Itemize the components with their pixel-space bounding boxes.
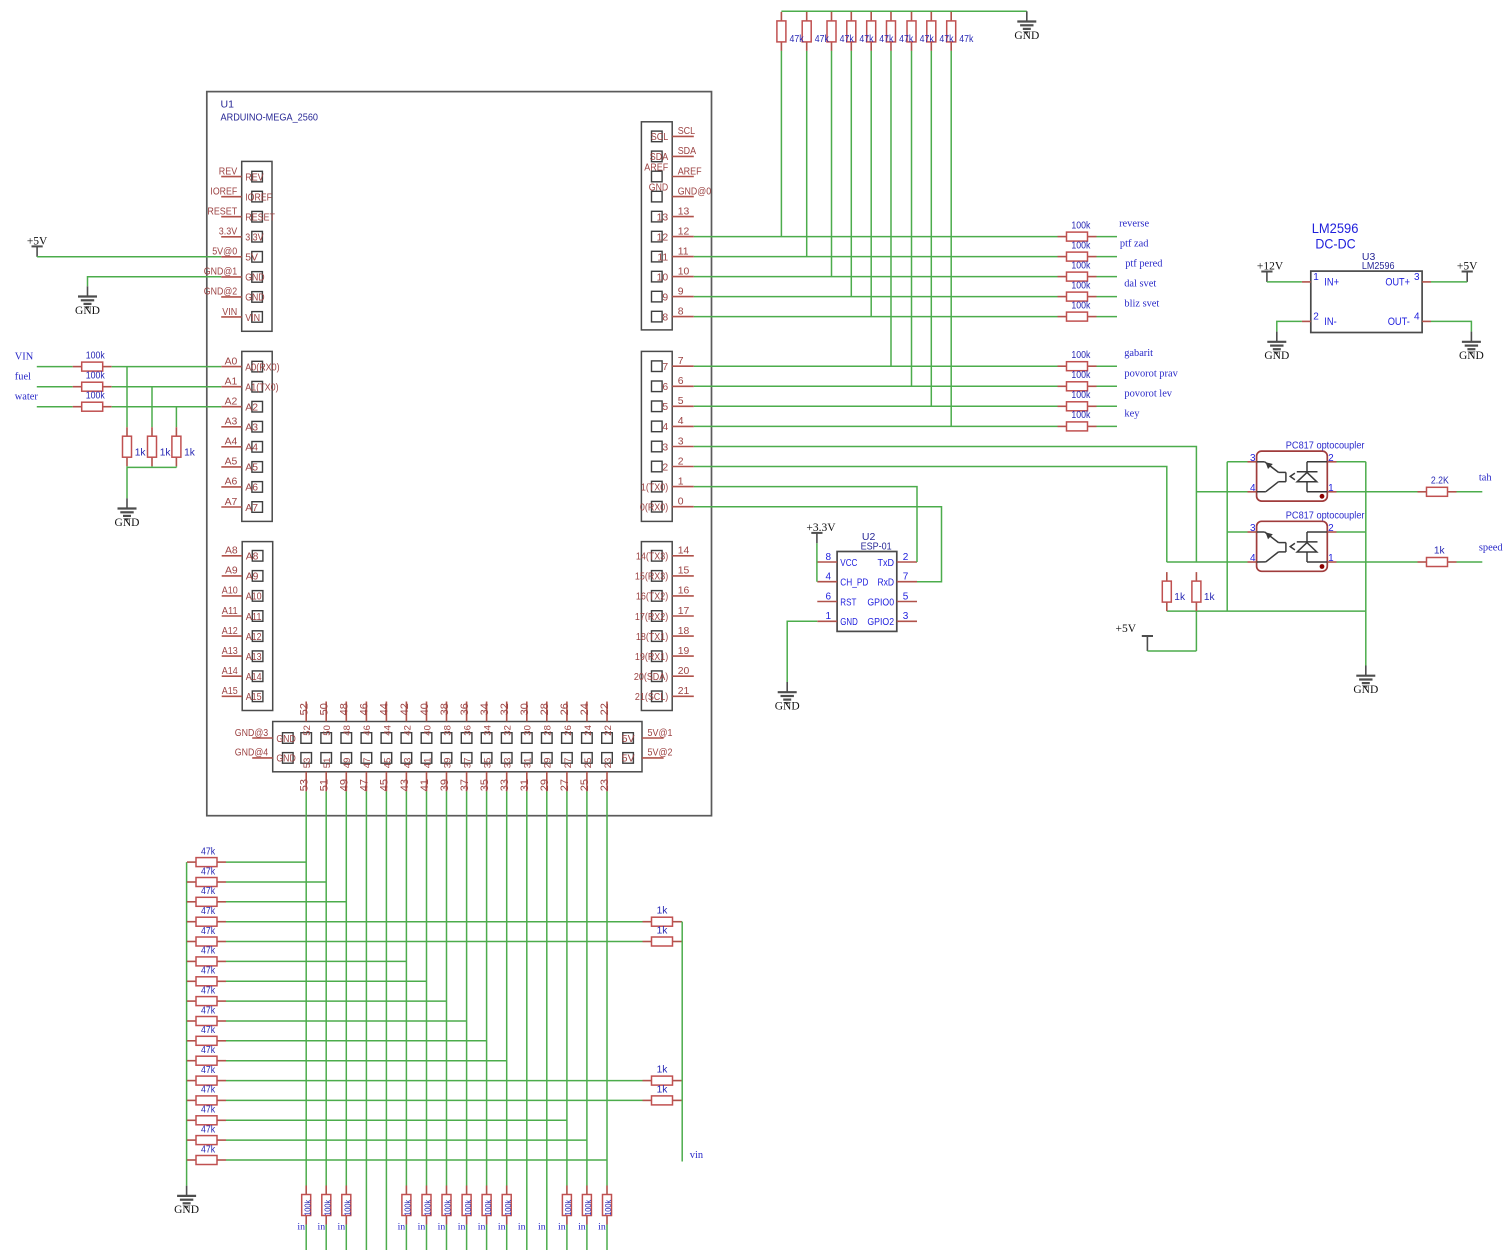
svg-text:GND: GND	[649, 183, 668, 194]
svg-text:100k: 100k	[1071, 220, 1091, 231]
svg-text:19: 19	[678, 646, 690, 657]
svg-text:42: 42	[399, 703, 411, 715]
svg-text:A11: A11	[246, 612, 262, 623]
svg-text:GND: GND	[1353, 684, 1378, 696]
svg-text:A13: A13	[222, 646, 238, 657]
svg-text:2: 2	[1328, 523, 1334, 534]
svg-text:SCL: SCL	[651, 132, 669, 143]
svg-text:1k: 1k	[160, 447, 172, 458]
svg-text:35: 35	[479, 779, 491, 791]
svg-text:29: 29	[543, 758, 554, 769]
svg-text:reverse: reverse	[1119, 219, 1149, 230]
svg-text:5V@2: 5V@2	[648, 748, 673, 759]
svg-text:8: 8	[826, 552, 832, 563]
svg-text:51: 51	[319, 779, 331, 791]
svg-text:A13: A13	[246, 652, 262, 663]
svg-text:52: 52	[302, 725, 313, 736]
svg-text:0: 0	[678, 497, 684, 508]
svg-text:3: 3	[1250, 453, 1256, 464]
svg-text:47k: 47k	[201, 985, 216, 996]
svg-text:key: key	[1124, 408, 1140, 419]
svg-text:20(SDA): 20(SDA)	[634, 672, 668, 683]
svg-text:15: 15	[678, 566, 690, 577]
svg-text:in: in	[297, 1222, 305, 1233]
svg-text:in: in	[578, 1222, 586, 1233]
svg-text:1(TX0): 1(TX0)	[641, 482, 668, 493]
svg-text:gabarit: gabarit	[1124, 348, 1153, 359]
svg-text:GND: GND	[245, 293, 264, 304]
svg-text:3: 3	[1414, 272, 1420, 283]
svg-text:A15: A15	[246, 692, 262, 703]
svg-text:46: 46	[359, 703, 371, 715]
svg-text:AREF: AREF	[644, 163, 668, 174]
svg-text:47k: 47k	[899, 34, 914, 45]
svg-text:A12: A12	[222, 626, 238, 637]
svg-text:A0: A0	[225, 356, 238, 367]
svg-text:34: 34	[483, 725, 494, 736]
svg-text:U1: U1	[221, 99, 235, 111]
svg-text:bliz svet: bliz svet	[1124, 299, 1159, 310]
svg-text:25: 25	[579, 779, 591, 791]
svg-text:16(TX2): 16(TX2)	[636, 592, 668, 603]
svg-text:51: 51	[322, 758, 333, 769]
svg-text:21(SCL): 21(SCL)	[635, 692, 668, 703]
svg-text:42: 42	[402, 725, 413, 736]
svg-text:in: in	[418, 1222, 426, 1233]
svg-text:+5V: +5V	[1115, 623, 1136, 635]
svg-text:A9: A9	[225, 566, 238, 577]
svg-text:34: 34	[479, 703, 491, 715]
svg-text:26: 26	[559, 703, 571, 715]
svg-text:53: 53	[299, 779, 311, 791]
svg-text:REV: REV	[245, 172, 263, 183]
svg-text:A0(RX0): A0(RX0)	[245, 362, 279, 373]
svg-text:1k: 1k	[1434, 546, 1446, 557]
svg-text:100k: 100k	[1071, 280, 1091, 291]
svg-text:DC-DC: DC-DC	[1315, 235, 1355, 251]
svg-text:45: 45	[382, 758, 393, 769]
svg-text:2: 2	[1328, 453, 1334, 464]
svg-text:VCC: VCC	[840, 558, 857, 569]
svg-text:GND@3: GND@3	[235, 728, 269, 739]
svg-text:1k: 1k	[135, 447, 147, 458]
svg-text:47k: 47k	[201, 866, 216, 877]
svg-text:A15: A15	[222, 686, 238, 697]
svg-text:GND: GND	[276, 754, 295, 765]
svg-text:47k: 47k	[840, 34, 855, 45]
svg-text:2.2K: 2.2K	[1431, 475, 1449, 486]
svg-text:21: 21	[678, 686, 690, 697]
svg-text:1: 1	[678, 476, 684, 487]
svg-text:48: 48	[342, 725, 353, 736]
svg-text:4: 4	[1250, 553, 1256, 564]
svg-text:OUT-: OUT-	[1388, 316, 1411, 328]
svg-text:A6: A6	[225, 477, 238, 488]
svg-text:47k: 47k	[815, 34, 830, 45]
svg-text:41: 41	[422, 758, 433, 769]
svg-text:47k: 47k	[201, 1144, 216, 1155]
svg-text:43: 43	[402, 758, 413, 769]
svg-text:A10: A10	[246, 592, 262, 603]
svg-text:12: 12	[678, 226, 690, 237]
svg-text:4: 4	[662, 422, 668, 433]
svg-text:32: 32	[499, 703, 511, 715]
svg-text:100k: 100k	[503, 1199, 513, 1216]
svg-text:47k: 47k	[859, 34, 874, 45]
svg-text:A4: A4	[225, 437, 238, 448]
svg-text:GND: GND	[115, 517, 140, 529]
svg-text:47k: 47k	[959, 34, 974, 45]
svg-text:100k: 100k	[1071, 390, 1091, 401]
svg-text:in: in	[598, 1222, 606, 1233]
svg-text:47k: 47k	[201, 1105, 216, 1116]
svg-text:dal svet: dal svet	[1124, 279, 1156, 290]
svg-text:11: 11	[678, 246, 689, 257]
svg-text:A9: A9	[246, 572, 259, 583]
svg-text:47: 47	[359, 779, 371, 791]
svg-text:15(RX3): 15(RX3)	[635, 572, 668, 583]
svg-text:3: 3	[1250, 523, 1256, 534]
svg-text:in: in	[438, 1222, 446, 1233]
svg-text:1: 1	[826, 611, 832, 622]
svg-text:GND: GND	[245, 273, 264, 284]
svg-text:47k: 47k	[201, 906, 216, 917]
svg-text:46: 46	[362, 725, 373, 736]
svg-text:50: 50	[322, 725, 333, 736]
svg-text:24: 24	[579, 703, 591, 715]
svg-text:47k: 47k	[920, 34, 935, 45]
svg-text:100k: 100k	[1071, 260, 1091, 271]
svg-text:GND: GND	[1459, 350, 1484, 362]
svg-text:GPIO0: GPIO0	[867, 597, 894, 608]
svg-text:47k: 47k	[201, 1085, 216, 1096]
svg-text:100k: 100k	[1071, 300, 1091, 311]
svg-text:in: in	[498, 1222, 506, 1233]
svg-text:A2: A2	[225, 397, 238, 408]
svg-text:47k: 47k	[201, 846, 216, 857]
svg-text:1: 1	[1313, 272, 1319, 283]
svg-text:5V: 5V	[622, 734, 635, 745]
svg-text:36: 36	[459, 703, 471, 715]
svg-text:14: 14	[678, 546, 690, 557]
svg-text:4: 4	[1250, 483, 1256, 494]
svg-text:AREF: AREF	[678, 166, 702, 177]
svg-text:22: 22	[603, 725, 614, 736]
svg-text:100k: 100k	[343, 1199, 353, 1216]
svg-text:GND: GND	[840, 617, 858, 628]
svg-text:25: 25	[583, 758, 594, 769]
svg-text:37: 37	[459, 779, 471, 791]
svg-text:6: 6	[826, 591, 832, 602]
svg-text:VIN: VIN	[245, 313, 260, 324]
svg-text:7: 7	[678, 356, 684, 367]
svg-text:LM2596: LM2596	[1312, 220, 1359, 236]
svg-text:TxD: TxD	[878, 558, 895, 569]
svg-text:IOREF: IOREF	[210, 187, 237, 198]
svg-text:9: 9	[678, 286, 684, 297]
svg-text:in: in	[398, 1222, 406, 1233]
svg-text:100k: 100k	[1071, 240, 1091, 251]
svg-text:41: 41	[419, 779, 431, 791]
svg-text:GND@4: GND@4	[235, 748, 269, 759]
svg-text:5V: 5V	[245, 253, 258, 264]
svg-text:37: 37	[463, 758, 474, 769]
svg-text:in: in	[458, 1222, 466, 1233]
svg-text:44: 44	[379, 703, 391, 715]
svg-text:33: 33	[499, 779, 511, 791]
svg-text:RESET: RESET	[245, 213, 275, 224]
svg-text:4: 4	[1414, 311, 1420, 322]
svg-text:4: 4	[678, 416, 684, 427]
svg-text:24: 24	[583, 725, 594, 736]
svg-text:43: 43	[399, 779, 411, 791]
svg-text:A8: A8	[246, 552, 259, 563]
svg-text:1k: 1k	[657, 926, 669, 937]
svg-text:100k: 100k	[86, 391, 106, 402]
svg-text:GND: GND	[775, 701, 800, 713]
svg-text:1: 1	[1328, 483, 1334, 494]
svg-text:A14: A14	[222, 666, 238, 677]
svg-text:11: 11	[657, 252, 668, 263]
svg-text:100k: 100k	[583, 1199, 593, 1216]
svg-text:8: 8	[678, 306, 684, 317]
svg-text:5: 5	[662, 402, 668, 413]
svg-text:+5V: +5V	[1457, 261, 1478, 273]
svg-text:REV: REV	[219, 166, 237, 177]
svg-text:7: 7	[662, 362, 668, 373]
svg-text:6: 6	[662, 382, 668, 393]
svg-text:RxD: RxD	[878, 578, 895, 589]
svg-text:47k: 47k	[879, 34, 894, 45]
svg-text:1k: 1k	[657, 906, 669, 917]
svg-text:IN+: IN+	[1324, 277, 1339, 289]
svg-text:49: 49	[339, 779, 351, 791]
svg-text:GND@2: GND@2	[204, 287, 238, 298]
svg-text:in: in	[538, 1222, 546, 1233]
svg-text:100k: 100k	[302, 1199, 312, 1216]
svg-text:1k: 1k	[1204, 592, 1216, 603]
svg-text:32: 32	[503, 725, 514, 736]
svg-text:A12: A12	[246, 632, 262, 643]
svg-text:47k: 47k	[201, 1045, 216, 1056]
svg-text:RESET: RESET	[207, 207, 237, 218]
svg-text:28: 28	[539, 703, 551, 715]
svg-text:A3: A3	[225, 417, 238, 428]
svg-text:17(RX2): 17(RX2)	[635, 612, 668, 623]
svg-text:1k: 1k	[657, 1084, 669, 1095]
svg-text:+5V: +5V	[27, 236, 48, 248]
svg-text:5: 5	[903, 591, 909, 602]
svg-text:in: in	[317, 1222, 325, 1233]
svg-text:PC817 optocoupler: PC817 optocoupler	[1286, 511, 1365, 522]
svg-text:9: 9	[662, 292, 668, 303]
svg-text:A10: A10	[222, 586, 238, 597]
svg-text:48: 48	[339, 703, 351, 715]
svg-text:13: 13	[657, 212, 669, 223]
svg-text:1k: 1k	[1174, 592, 1186, 603]
svg-text:A3: A3	[245, 423, 258, 434]
svg-text:A1(TX0): A1(TX0)	[245, 383, 278, 394]
svg-text:0(RX0): 0(RX0)	[640, 503, 668, 514]
svg-text:GND: GND	[276, 734, 295, 745]
svg-text:7: 7	[903, 572, 909, 583]
svg-text:47k: 47k	[201, 966, 216, 977]
svg-text:GND@0: GND@0	[678, 186, 712, 197]
svg-text:14(TX3): 14(TX3)	[636, 552, 668, 563]
svg-text:100k: 100k	[86, 350, 106, 361]
svg-text:28: 28	[543, 725, 554, 736]
svg-text:ptf zad: ptf zad	[1120, 239, 1149, 250]
svg-text:ARDUINO-MEGA_2560: ARDUINO-MEGA_2560	[221, 112, 319, 124]
svg-text:47k: 47k	[201, 1005, 216, 1016]
svg-text:1: 1	[1328, 553, 1334, 564]
svg-text:GND: GND	[1014, 30, 1039, 42]
svg-text:47k: 47k	[201, 886, 216, 897]
svg-text:49: 49	[342, 758, 353, 769]
svg-text:IOREF: IOREF	[245, 193, 272, 204]
svg-text:38: 38	[442, 725, 453, 736]
svg-text:ESP-01: ESP-01	[861, 540, 892, 552]
svg-text:100k: 100k	[86, 371, 106, 382]
svg-text:in: in	[478, 1222, 486, 1233]
svg-text:1k: 1k	[657, 1065, 669, 1076]
svg-text:A1: A1	[225, 377, 238, 388]
svg-text:30: 30	[519, 703, 531, 715]
svg-text:36: 36	[463, 725, 474, 736]
svg-text:27: 27	[559, 779, 571, 791]
svg-text:GND: GND	[75, 305, 100, 317]
svg-text:SCL: SCL	[678, 126, 696, 137]
svg-text:povorot prav: povorot prav	[1124, 368, 1178, 379]
svg-text:VIN: VIN	[222, 307, 237, 318]
svg-text:3.3V: 3.3V	[219, 227, 237, 238]
svg-text:10: 10	[678, 266, 690, 277]
svg-text:A6: A6	[245, 483, 258, 494]
svg-text:3: 3	[903, 611, 909, 622]
svg-text:27: 27	[563, 758, 574, 769]
svg-text:100k: 100k	[463, 1199, 473, 1216]
svg-text:A7: A7	[245, 503, 258, 514]
svg-text:26: 26	[563, 725, 574, 736]
svg-text:45: 45	[379, 779, 391, 791]
svg-text:A7: A7	[225, 497, 238, 508]
svg-text:GND: GND	[174, 1204, 199, 1216]
svg-text:100k: 100k	[423, 1199, 433, 1216]
svg-text:ptf pered: ptf pered	[1125, 259, 1163, 270]
svg-text:38: 38	[439, 703, 451, 715]
svg-text:in: in	[518, 1222, 526, 1233]
svg-text:39: 39	[442, 758, 453, 769]
svg-text:23: 23	[599, 779, 611, 791]
svg-text:8: 8	[662, 312, 668, 323]
svg-text:A5: A5	[245, 463, 258, 474]
svg-text:18(TX1): 18(TX1)	[636, 632, 668, 643]
svg-text:100k: 100k	[563, 1199, 573, 1216]
svg-text:2: 2	[678, 456, 684, 467]
svg-text:+3.3V: +3.3V	[806, 522, 836, 534]
svg-text:31: 31	[523, 758, 534, 769]
svg-text:A14: A14	[246, 672, 262, 683]
svg-text:100k: 100k	[1071, 370, 1091, 381]
svg-text:100k: 100k	[1071, 350, 1091, 361]
svg-text:SDA: SDA	[678, 146, 696, 157]
svg-text:2: 2	[1313, 311, 1319, 322]
svg-text:5V@0: 5V@0	[212, 247, 237, 258]
svg-text:povorot lev: povorot lev	[1124, 388, 1172, 399]
svg-text:47: 47	[362, 758, 373, 769]
svg-text:A8: A8	[225, 546, 238, 557]
svg-text:speed: speed	[1479, 543, 1503, 554]
svg-text:20: 20	[678, 666, 690, 677]
svg-text:53: 53	[302, 758, 313, 769]
svg-text:47k: 47k	[790, 34, 805, 45]
svg-text:GND: GND	[1264, 350, 1289, 362]
svg-text:A5: A5	[225, 457, 238, 468]
svg-text:fuel: fuel	[15, 372, 31, 383]
svg-text:LM2596: LM2596	[1362, 260, 1395, 272]
svg-text:A4: A4	[245, 443, 258, 454]
svg-text:OUT+: OUT+	[1385, 277, 1410, 289]
svg-text:VIN: VIN	[15, 352, 34, 363]
svg-text:RST: RST	[840, 597, 857, 608]
svg-text:29: 29	[539, 779, 551, 791]
svg-text:3: 3	[662, 442, 668, 453]
svg-text:47k: 47k	[201, 1124, 216, 1135]
svg-text:in: in	[337, 1222, 345, 1233]
svg-text:12: 12	[657, 232, 669, 243]
svg-text:6: 6	[678, 376, 684, 387]
svg-text:52: 52	[299, 703, 311, 715]
svg-text:40: 40	[422, 725, 433, 736]
svg-text:100k: 100k	[483, 1199, 493, 1216]
svg-text:GPIO2: GPIO2	[867, 617, 894, 628]
svg-text:5: 5	[678, 396, 684, 407]
svg-text:100k: 100k	[603, 1199, 613, 1216]
svg-text:19(RX1): 19(RX1)	[635, 652, 668, 663]
svg-text:water: water	[15, 392, 39, 403]
svg-text:A2: A2	[245, 403, 258, 414]
svg-text:2: 2	[903, 552, 909, 563]
svg-text:A11: A11	[222, 606, 238, 617]
svg-text:33: 33	[503, 758, 514, 769]
svg-text:47k: 47k	[201, 1025, 216, 1036]
svg-text:5V: 5V	[622, 754, 635, 765]
svg-text:GND@1: GND@1	[204, 267, 238, 278]
svg-text:tah: tah	[1479, 473, 1492, 484]
svg-text:4: 4	[826, 572, 832, 583]
svg-text:47k: 47k	[201, 926, 216, 937]
svg-text:13: 13	[678, 206, 690, 217]
svg-text:IN-: IN-	[1324, 316, 1337, 328]
svg-text:44: 44	[382, 725, 393, 736]
svg-text:100k: 100k	[443, 1199, 453, 1216]
svg-text:10: 10	[657, 272, 669, 283]
svg-text:3: 3	[678, 436, 684, 447]
svg-text:100k: 100k	[1071, 410, 1091, 421]
svg-text:5V@1: 5V@1	[648, 728, 673, 739]
svg-text:18: 18	[678, 626, 690, 637]
svg-text:22: 22	[599, 703, 611, 715]
svg-text:3.3V: 3.3V	[245, 233, 263, 244]
svg-text:47k: 47k	[201, 1065, 216, 1076]
svg-text:vin: vin	[690, 1150, 704, 1161]
svg-text:16: 16	[678, 586, 690, 597]
svg-text:30: 30	[523, 725, 534, 736]
svg-text:35: 35	[483, 758, 494, 769]
svg-text:CH_PD: CH_PD	[840, 578, 868, 589]
svg-text:2: 2	[662, 462, 668, 473]
svg-text:39: 39	[439, 779, 451, 791]
